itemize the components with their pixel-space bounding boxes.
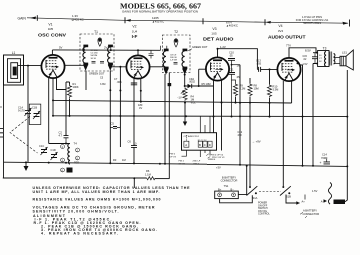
wire V3 plate up and right [218,49,258,62]
svg-text:A+: A+ [302,199,306,203]
lower bus (ground) [4,162,207,164]
wire V1 plate to top rail [51,50,53,55]
switch S1A [249,166,251,186]
svg-text:2ND I-F: 2ND I-F [193,161,201,163]
svg-text:10M: 10M [254,87,259,91]
main bus line (upper) [53,115,347,118]
gain line tick V2 [124,17,126,23]
svg-text:GAINS FOR NORMAL BATTERY OPERA: GAINS FOR NORMAL BATTERY OPERATING POSIT… [122,10,198,14]
battery B1 [334,200,346,205]
transformer T2 dashed box [162,35,190,73]
svg-text:C11: C11 [229,68,234,72]
svg-text:4V: 4V [139,106,142,110]
svg-text:5V: 5V [59,46,63,50]
wire V1 right to T1 [64,64,84,66]
V4 screen wire [300,65,302,117]
svg-text:1.1M: 1.1M [145,172,151,176]
T4 terminal circles [61,145,65,149]
svg-text:1M: 1M [122,158,126,162]
node V4 screen on envelope [297,62,299,64]
svg-text:CONNECTOR: CONNECTOR [303,212,320,216]
svg-text:T4: T4 [74,142,78,146]
svg-text:C5: C5 [111,122,115,126]
V2 bottom drops [134,78,141,116]
top rail B+ [52,49,160,51]
svg-text:OSC CONV: OSC CONV [38,33,67,38]
svg-text:.0002: .0002 [189,80,196,84]
node T1 secondary top [110,49,112,51]
svg-text:S1A: S1A [253,196,258,200]
ground arrow below volume [184,116,186,122]
svg-text:V2: V2 [132,25,136,29]
svg-text:PIN 2: PIN 2 [179,161,185,163]
svg-text:1.5V: 1.5V [312,189,318,193]
wire V1 bottom pin right [57,77,67,90]
connector spring symbol [328,183,331,205]
wire right side down to battery [345,166,347,201]
svg-text:▲400 KC: ▲400 KC [226,24,238,28]
svg-text:30 30: 30 30 [91,58,97,60]
T1 trimmer caps inside [92,62,105,64]
svg-text:PIN 2 OF V3: PIN 2 OF V3 [212,157,225,159]
svg-text:GAIN: GAIN [18,16,27,20]
capacitor C16 across primary [312,57,318,59]
svg-text:1.5V: 1.5V [303,63,308,66]
svg-text:.05: .05 [236,75,240,79]
svg-text:C1C: C1C [39,144,44,148]
svg-text:4. REPEAT AS NECESSARY.: 4. REPEAT AS NECESSARY. [41,231,118,235]
gain line tick V3 [202,18,204,24]
svg-text:1-9 5M: 1-9 5M [170,60,177,62]
T4 core blob [67,168,73,173]
V4 filament pins [283,81,291,186]
wire V2 right to T2 [149,66,165,68]
svg-text:1U5: 1U5 [211,32,217,36]
svg-text:LS1: LS1 [342,51,347,55]
AVC line [53,100,292,103]
svg-text:2V: 2V [104,46,108,50]
T1 secondary winding [108,45,113,71]
resistor R8 [248,83,252,97]
wires T3 left side [313,53,318,64]
svg-text:C1D: C1D [51,148,56,152]
node V2 plate [137,49,139,51]
wire T2 secondary bottom junction [184,74,186,76]
vertical x=240 [239,65,241,117]
svg-text:T3: T3 [323,47,327,51]
svg-text:A BATTERY: A BATTERY [303,208,317,212]
svg-text:3V4: 3V4 [278,29,284,33]
wire T2 secondary down to diode line [184,75,186,86]
svg-text:−1V: −1V [177,96,182,100]
T1 bottom drops [86,67,120,116]
svg-text:B: B [199,143,201,147]
svg-text:77V: 77V [286,44,291,48]
tuning capacitor C1B box [29,104,41,124]
svg-text:RESISTANCE VALUES ARE OHMS K=: RESISTANCE VALUES ARE OHMS K=1000 M=1,00… [33,197,161,201]
wire V2 top pin [137,50,139,56]
wire T1 secondary top stub [110,46,112,50]
svg-text:8.5V: 8.5V [305,49,311,53]
svg-text:.005: .005 [256,61,262,65]
resistor R9 [233,83,237,97]
svg-text:PIN 6: PIN 6 [170,154,176,156]
svg-text:.05: .05 [229,54,233,58]
wire V1 bottom pin left [48,78,50,144]
svg-text:R6: R6 [146,169,150,173]
T1 core arrow [98,38,102,46]
svg-text:GREEN DOT: GREEN DOT [89,72,105,76]
node T1 primary top [83,49,85,51]
svg-text:1R5: 1R5 [48,27,54,31]
svg-text:C: C [204,143,206,147]
svg-text:SENSITIVITY 20,000 OHMS/VOLT.: SENSITIVITY 20,000 OHMS/VOLT. [33,209,119,213]
wire speaker to bus [346,70,348,166]
node loop tap [27,65,29,67]
bus nodes [52,115,54,117]
gain reference line [27,18,348,23]
T2 trimmer caps inside [174,63,178,65]
switch S1B [282,186,284,188]
svg-text:V4: V4 [278,24,282,28]
svg-text:CONNECTOR: CONNECTOR [221,179,238,183]
capacitor C6 at top rail [149,50,154,58]
svg-text:100K: 100K [73,85,79,89]
wire loop tap to V1 grid [18,65,42,67]
svg-text:WIRES: WIRES [208,159,216,161]
resistor R10 at V4 grid [267,84,271,98]
svg-text:GREEN DOT: GREEN DOT [192,45,208,49]
wire T1 primary top stub [83,46,85,50]
svg-text:@455 KC: @455 KC [72,18,84,22]
svg-text:SMOOTH RMS: SMOOTH RMS [303,21,321,25]
scan artifact marks left edge [0,129,4,138]
svg-text:9-170: 9-170 [18,108,25,112]
svg-text:+3V: +3V [216,165,221,169]
svg-text:1U4: 1U4 [132,29,138,33]
svg-text:AUDIO OUTPUT: AUDIO OUTPUT [268,35,306,40]
wire V4 plate to T3 [289,48,318,58]
svg-text:A: A [185,143,187,147]
capacitor C13 coupling to V4 grid [257,62,277,72]
far left vertical wire [3,55,5,178]
gain line tick V4 [264,19,266,25]
T2 bottom drops [164,74,166,164]
svg-text:OF V2: OF V2 [179,163,186,165]
svg-text:CONTROL: CONTROL [258,213,270,216]
tube V4 [277,58,300,81]
svg-text:UNIT 1 ARE MF, ALL VALUES MORE: UNIT 1 ARE MF, ALL VALUES MORE THAN 1 AR… [33,190,160,194]
svg-text:V3: V3 [212,27,216,31]
T2 secondary winding [182,49,187,75]
svg-text:.005: .005 [117,80,123,84]
svg-text:R3: R3 [113,158,117,162]
T2 primary winding [163,49,168,75]
wire V3 grid [199,68,207,70]
T2 center tap drop [168,73,170,179]
volume control R4 potentiometer [183,87,187,101]
gain line left arrowhead [30,17,36,20]
svg-text:L1: L1 [12,51,16,55]
gang dashed link [10,117,38,154]
V3 bottom pins to switch [214,80,222,151]
gain line right arrowhead and end tick [343,22,349,25]
svg-text:S1B: S1B [286,195,291,199]
svg-text:3.3M: 3.3M [100,83,105,86]
vertical from loop tap [27,66,29,111]
svg-text:1.2V: 1.2V [220,45,226,49]
svg-text:C17 A2B2C2D2: C17 A2B2C2D2 [184,135,200,138]
tube V2 [126,55,149,78]
wires below switch box [182,150,211,157]
tube V1 [41,55,64,78]
tube V3 [206,57,229,80]
svg-text:4.7: 4.7 [59,133,63,137]
T2 core arrow [174,39,178,47]
svg-text:OF V3: OF V3 [170,156,177,158]
svg-text:V1: V1 [48,23,52,27]
chassis ground symbol [25,162,27,166]
wire S1B down to A+ [286,195,300,204]
svg-text:I-F: I-F [132,34,138,39]
switch S1 box [182,133,217,151]
diode detector line [185,85,214,87]
svg-text:→ +9V: → +9V [252,140,261,144]
svg-text:+: + [320,161,322,165]
svg-text:PIN 7: PIN 7 [194,163,200,165]
svg-text:C6: C6 [128,139,132,143]
svg-text:3.3M: 3.3M [273,88,279,92]
dashed link S1A-S1B [259,191,281,193]
wire T1 secondary bottom to V2 [111,66,127,68]
T1 primary winding [83,45,88,71]
svg-text:▲455 KC: ▲455 KC [152,19,164,23]
notes text block [33,186,191,235]
svg-text:DET AUDIO: DET AUDIO [203,36,234,41]
bottom return bus [3,177,147,179]
wire T2 primary top stub [161,46,167,51]
svg-text:C1B: C1B [32,106,37,110]
svg-text:10M: 10M [206,82,211,86]
svg-text:T2: T2 [174,30,178,34]
svg-text:D: D [209,143,211,147]
wire TS1 loop [220,195,253,203]
wire T3 down to bus [312,64,314,166]
svg-text:TS1: TS1 [224,184,229,188]
node V4 grid [269,68,271,70]
transformer T1 dashed box [80,34,114,71]
wires into switch box [185,135,187,141]
svg-text:T1: T1 [94,30,98,34]
node osc [65,143,67,145]
diode symbol [188,84,192,88]
